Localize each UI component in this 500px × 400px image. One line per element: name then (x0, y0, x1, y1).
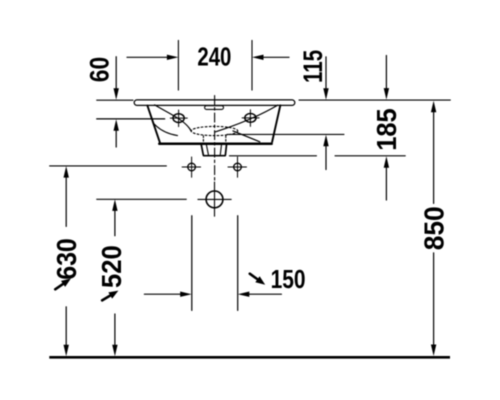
extension line 150 right (237, 216, 239, 311)
leader arrow for 630 (53, 275, 73, 292)
floor line (49, 356, 450, 359)
back edge curve left (153, 123, 178, 136)
dim 150 right arrow (249, 293, 281, 295)
dim 150 left arrow (144, 293, 180, 295)
dim 630 line upper segment (65, 177, 67, 226)
dim 60 top arrow (115, 57, 117, 89)
svg-text:520: 520 (96, 245, 127, 288)
extension line 115 bottom (227, 133, 344, 135)
extension line 630 level (50, 165, 167, 167)
svg-text:240: 240 (197, 42, 231, 72)
svg-text:60: 60 (84, 57, 114, 83)
dim 630 line lower segment (65, 307, 67, 345)
drain cup outer (201, 144, 227, 156)
faucet hole left (173, 114, 184, 123)
fixing hole right (234, 163, 242, 171)
basin rim bar (134, 100, 295, 106)
svg-text:150: 150 (271, 264, 306, 294)
extension line 240 left (177, 40, 179, 90)
dim 850 line upper segment (433, 112, 435, 204)
centerline (dash-dot) (214, 96, 216, 181)
extension line 60 below rim (97, 118, 165, 120)
inner bowl curve right (216, 105, 278, 132)
leader arrow for 150 (248, 271, 268, 288)
svg-text:185: 185 (371, 108, 402, 151)
dim 185 bottom arrow (385, 168, 387, 201)
svg-text:630: 630 (51, 238, 82, 280)
inner corner segment to bottom right (233, 131, 260, 142)
svg-text:850: 850 (419, 206, 450, 250)
dim 115 bottom arrow (325, 146, 327, 170)
extension line 185 bottom (drain bottom level) (229, 155, 405, 157)
drain pipe circle (206, 191, 223, 208)
basin right wall (272, 105, 280, 142)
dim 60 bottom arrow (115, 131, 117, 148)
dim 240 left arrow (127, 56, 168, 58)
extension line rim-top left (97, 99, 133, 101)
fixing hole left (188, 163, 196, 171)
overflow slot (205, 106, 224, 110)
drain hidden lines above bottom (203, 136, 225, 143)
svg-text:115: 115 (298, 50, 328, 83)
extension line 150 left (191, 216, 193, 311)
dim 520 line lower segment (114, 314, 116, 345)
faucet hole right (245, 114, 256, 123)
dim 850 line lower segment (433, 253, 435, 345)
dim 115 top arrow (325, 57, 327, 88)
extension line 240 right (251, 40, 253, 90)
basin left wall (147, 106, 160, 143)
extension line rim-top right (299, 99, 450, 101)
drain recess lens (hidden, dotted) (191, 126, 238, 135)
dim 185 top arrow (385, 56, 387, 89)
dim 240 right arrow (263, 56, 289, 58)
basin bottom (159, 142, 271, 145)
dim 520 line upper segment (114, 211, 116, 236)
inner bowl curve left (155, 105, 192, 131)
leader arrow for 520 (100, 287, 120, 303)
extension line 520 level (97, 198, 187, 200)
drain cup inner walls (206, 144, 221, 155)
